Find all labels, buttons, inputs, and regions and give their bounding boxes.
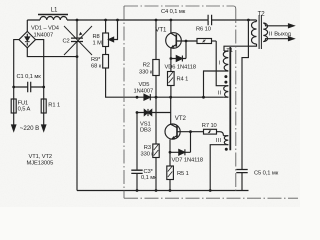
svg-text:0,5 A: 0,5 A [18,106,31,112]
resistor R1 [41,87,46,118]
svg-text:VT1, VT2: VT1, VT2 [29,154,53,160]
wire bridge minus [27,48,77,57]
resistor R8 (trimmer) [103,20,109,47]
T1 winding II [216,41,228,97]
node R8 top [104,19,107,22]
node R5 bottom [169,189,172,192]
node VT1 collector [170,19,173,22]
node midpoint VT2 [169,96,172,99]
output arrow top [289,24,295,28]
svg-text:68 к: 68 к [91,64,102,70]
svg-text:T2: T2 [258,11,266,18]
node C4 T2 junction [247,19,250,22]
output arrow bottom [289,37,295,41]
boundary top [124,6,236,9]
svg-text:VD7 1N4118: VD7 1N4118 [172,158,204,164]
node C1 left [12,86,15,89]
polarity dot winding III [225,148,228,151]
node R3 bottom [155,189,158,192]
node VD6 cathode base [185,40,188,43]
capacitor C5 [236,170,247,191]
diode VD5 [137,94,156,100]
T1 winding III [210,136,228,191]
svg-text:C1 0,1 мк: C1 0,1 мк [17,74,42,80]
bridge rectifier VD1-VD4 [19,20,36,48]
transformer T2 primary [252,20,257,44]
svg-text:R5 1: R5 1 [177,171,189,177]
svg-text:1N4007: 1N4007 [34,33,54,39]
node midpoint T1 [202,96,205,99]
diode VD7 [170,132,191,156]
wire bottom rail [77,190,249,192]
capacitor C1 [14,82,44,92]
transformer T1 core [229,47,231,150]
svg-text:VT2: VT2 [175,115,187,122]
capacitor C4 [208,15,212,25]
boundary bottom [124,197,298,199]
wire top rail right of C4 [212,19,257,21]
svg-text:C5 0,1 мк: C5 0,1 мк [254,170,279,176]
T1 winding I [204,44,257,97]
fuse FU1 [11,87,16,114]
svg-text:C3*: C3* [144,169,154,175]
transistor VT2 [165,97,180,152]
resistor R5 [167,152,174,190]
resistor R3 [153,144,159,191]
diac VS1 [137,109,171,116]
svg-text:R9*: R9* [91,57,101,63]
resistor R2 [153,20,159,97]
node VD7 cathode base [189,130,192,133]
node VD5 anode [136,96,139,99]
svg-text:VD5: VD5 [139,82,150,88]
wire C4/C5 divider [242,20,248,170]
svg-text:DB3: DB3 [140,128,151,134]
svg-text:0,1 мк: 0,1 мк [141,175,157,181]
node VS1 left [136,111,139,114]
wire AC left leg [14,40,19,87]
svg-text:R6 10: R6 10 [196,27,211,33]
svg-text:C4 0,1 мк: C4 0,1 мк [161,9,186,15]
svg-text:R2: R2 [143,62,150,68]
inductor L1 [38,15,68,21]
node C1 right [42,86,45,89]
cross-out mark over C2 [64,26,92,55]
node R2 top [155,19,158,22]
resistor R4 [168,59,175,98]
capacitor C3 [131,113,142,191]
svg-text:VS1: VS1 [140,121,151,127]
svg-text:MJE13005: MJE13005 [27,161,54,167]
AC input arrow right [42,118,46,131]
module boundary dash-dot [124,6,298,198]
AC input arrow left [12,114,16,131]
transistor VT1 [166,20,197,59]
wire top rail left [27,19,208,21]
svg-text:1 M: 1 M [93,41,103,47]
svg-text:1N4007: 1N4007 [134,88,154,94]
svg-text:330 к: 330 к [139,70,153,76]
transformer T2 core [259,15,261,49]
node VD7 anode [169,151,172,154]
diode VD6 [171,41,186,62]
wire midpoint [156,96,223,98]
wire AC right leg [36,40,44,87]
resistor R7 [180,129,223,135]
svg-text:R4 1: R4 1 [177,77,189,83]
R8 wiper wire [109,20,118,42]
boundary right [235,9,237,193]
boundary left [123,6,125,198]
svg-text:L1: L1 [51,6,58,13]
wire R2-R3 vertical [155,97,157,144]
node minus/C2 bottom [76,55,79,58]
svg-text:II: II [218,90,222,96]
node winding III bottom [209,189,212,192]
svg-text:II Выход: II Выход [269,32,292,38]
resistor R6 [197,39,216,44]
svg-text:C2: C2 [63,38,70,44]
svg-text:VT1: VT1 [155,27,167,34]
node midpoint R2 [155,96,158,99]
svg-text:VD1 – VD4: VD1 – VD4 [31,26,60,32]
node C2 top [76,19,79,22]
wire minus leg down [76,57,78,191]
svg-text:FU1: FU1 [18,100,29,106]
svg-text:330 к: 330 к [141,152,155,158]
svg-text:R1 1: R1 1 [48,103,60,109]
node VD6 anode [170,57,173,60]
node R8 wiper [116,19,119,22]
svg-text:R8: R8 [93,34,100,40]
node C3 bottom [136,189,139,192]
T2 secondary [263,23,289,42]
svg-text:R7 10: R7 10 [202,123,217,129]
svg-text:~220 В: ~220 В [20,125,39,132]
svg-text:R3: R3 [144,145,151,151]
resistor R9 [103,47,137,98]
T1 polarity dots [224,75,227,78]
capacitor C2 (crossed out) [71,20,83,57]
svg-text:III: III [216,138,222,144]
svg-text:VD6 1N4118: VD6 1N4118 [165,64,197,70]
